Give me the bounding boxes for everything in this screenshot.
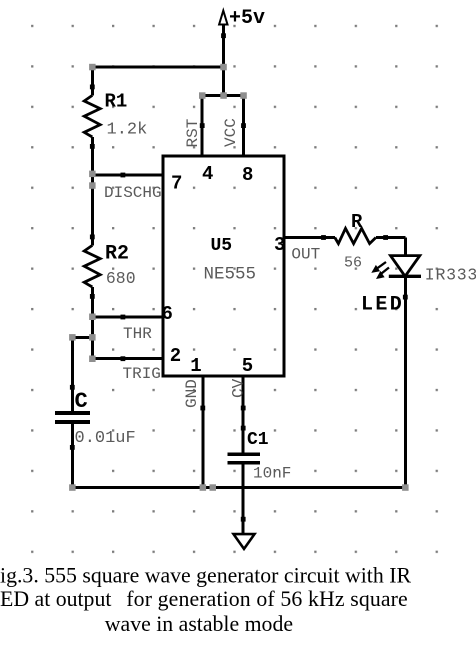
svg-text:U5: U5 [211, 236, 233, 256]
svg-text:CV: CV [230, 378, 248, 398]
svg-text:3: 3 [274, 234, 285, 256]
svg-text:LED at output: LED at output [0, 587, 111, 611]
svg-text:R2: R2 [105, 243, 129, 266]
svg-text:R: R [351, 211, 363, 233]
svg-text:0.01uF: 0.01uF [75, 429, 136, 448]
svg-text:TRIG: TRIG [123, 365, 161, 383]
svg-text:2: 2 [170, 345, 181, 367]
svg-text:THR: THR [123, 325, 152, 343]
svg-text:6: 6 [162, 303, 173, 325]
svg-text:4: 4 [202, 163, 213, 185]
svg-text:10nF: 10nF [253, 465, 291, 483]
svg-text:C1: C1 [247, 430, 269, 450]
svg-text:56: 56 [344, 255, 362, 272]
svg-text:R1: R1 [105, 91, 128, 113]
svg-text:680: 680 [106, 269, 136, 288]
svg-text:+5v: +5v [229, 7, 265, 30]
svg-text:IR333: IR333 [425, 266, 476, 285]
svg-text:LED: LED [361, 294, 404, 317]
svg-text:for generation of 56 kHz squar: for generation of 56 kHz square [126, 587, 408, 611]
svg-text:7: 7 [171, 173, 182, 195]
svg-text:NE555: NE555 [204, 265, 257, 285]
svg-text:C: C [75, 389, 88, 414]
svg-text:GND: GND [183, 379, 201, 408]
svg-text:1: 1 [190, 355, 201, 377]
svg-text:RST: RST [184, 119, 202, 148]
svg-text:wave in astable mode: wave in astable mode [105, 612, 293, 636]
svg-text:Fig.3. 555 square wave generat: Fig.3. 555 square wave generator circuit… [0, 564, 411, 588]
svg-text:DISCHG: DISCHG [104, 184, 162, 202]
svg-text:OUT: OUT [291, 246, 320, 264]
svg-text:8: 8 [242, 164, 253, 186]
svg-text:5: 5 [242, 355, 253, 377]
svg-text:1.2k: 1.2k [107, 121, 148, 140]
svg-text:VCC: VCC [222, 118, 240, 147]
